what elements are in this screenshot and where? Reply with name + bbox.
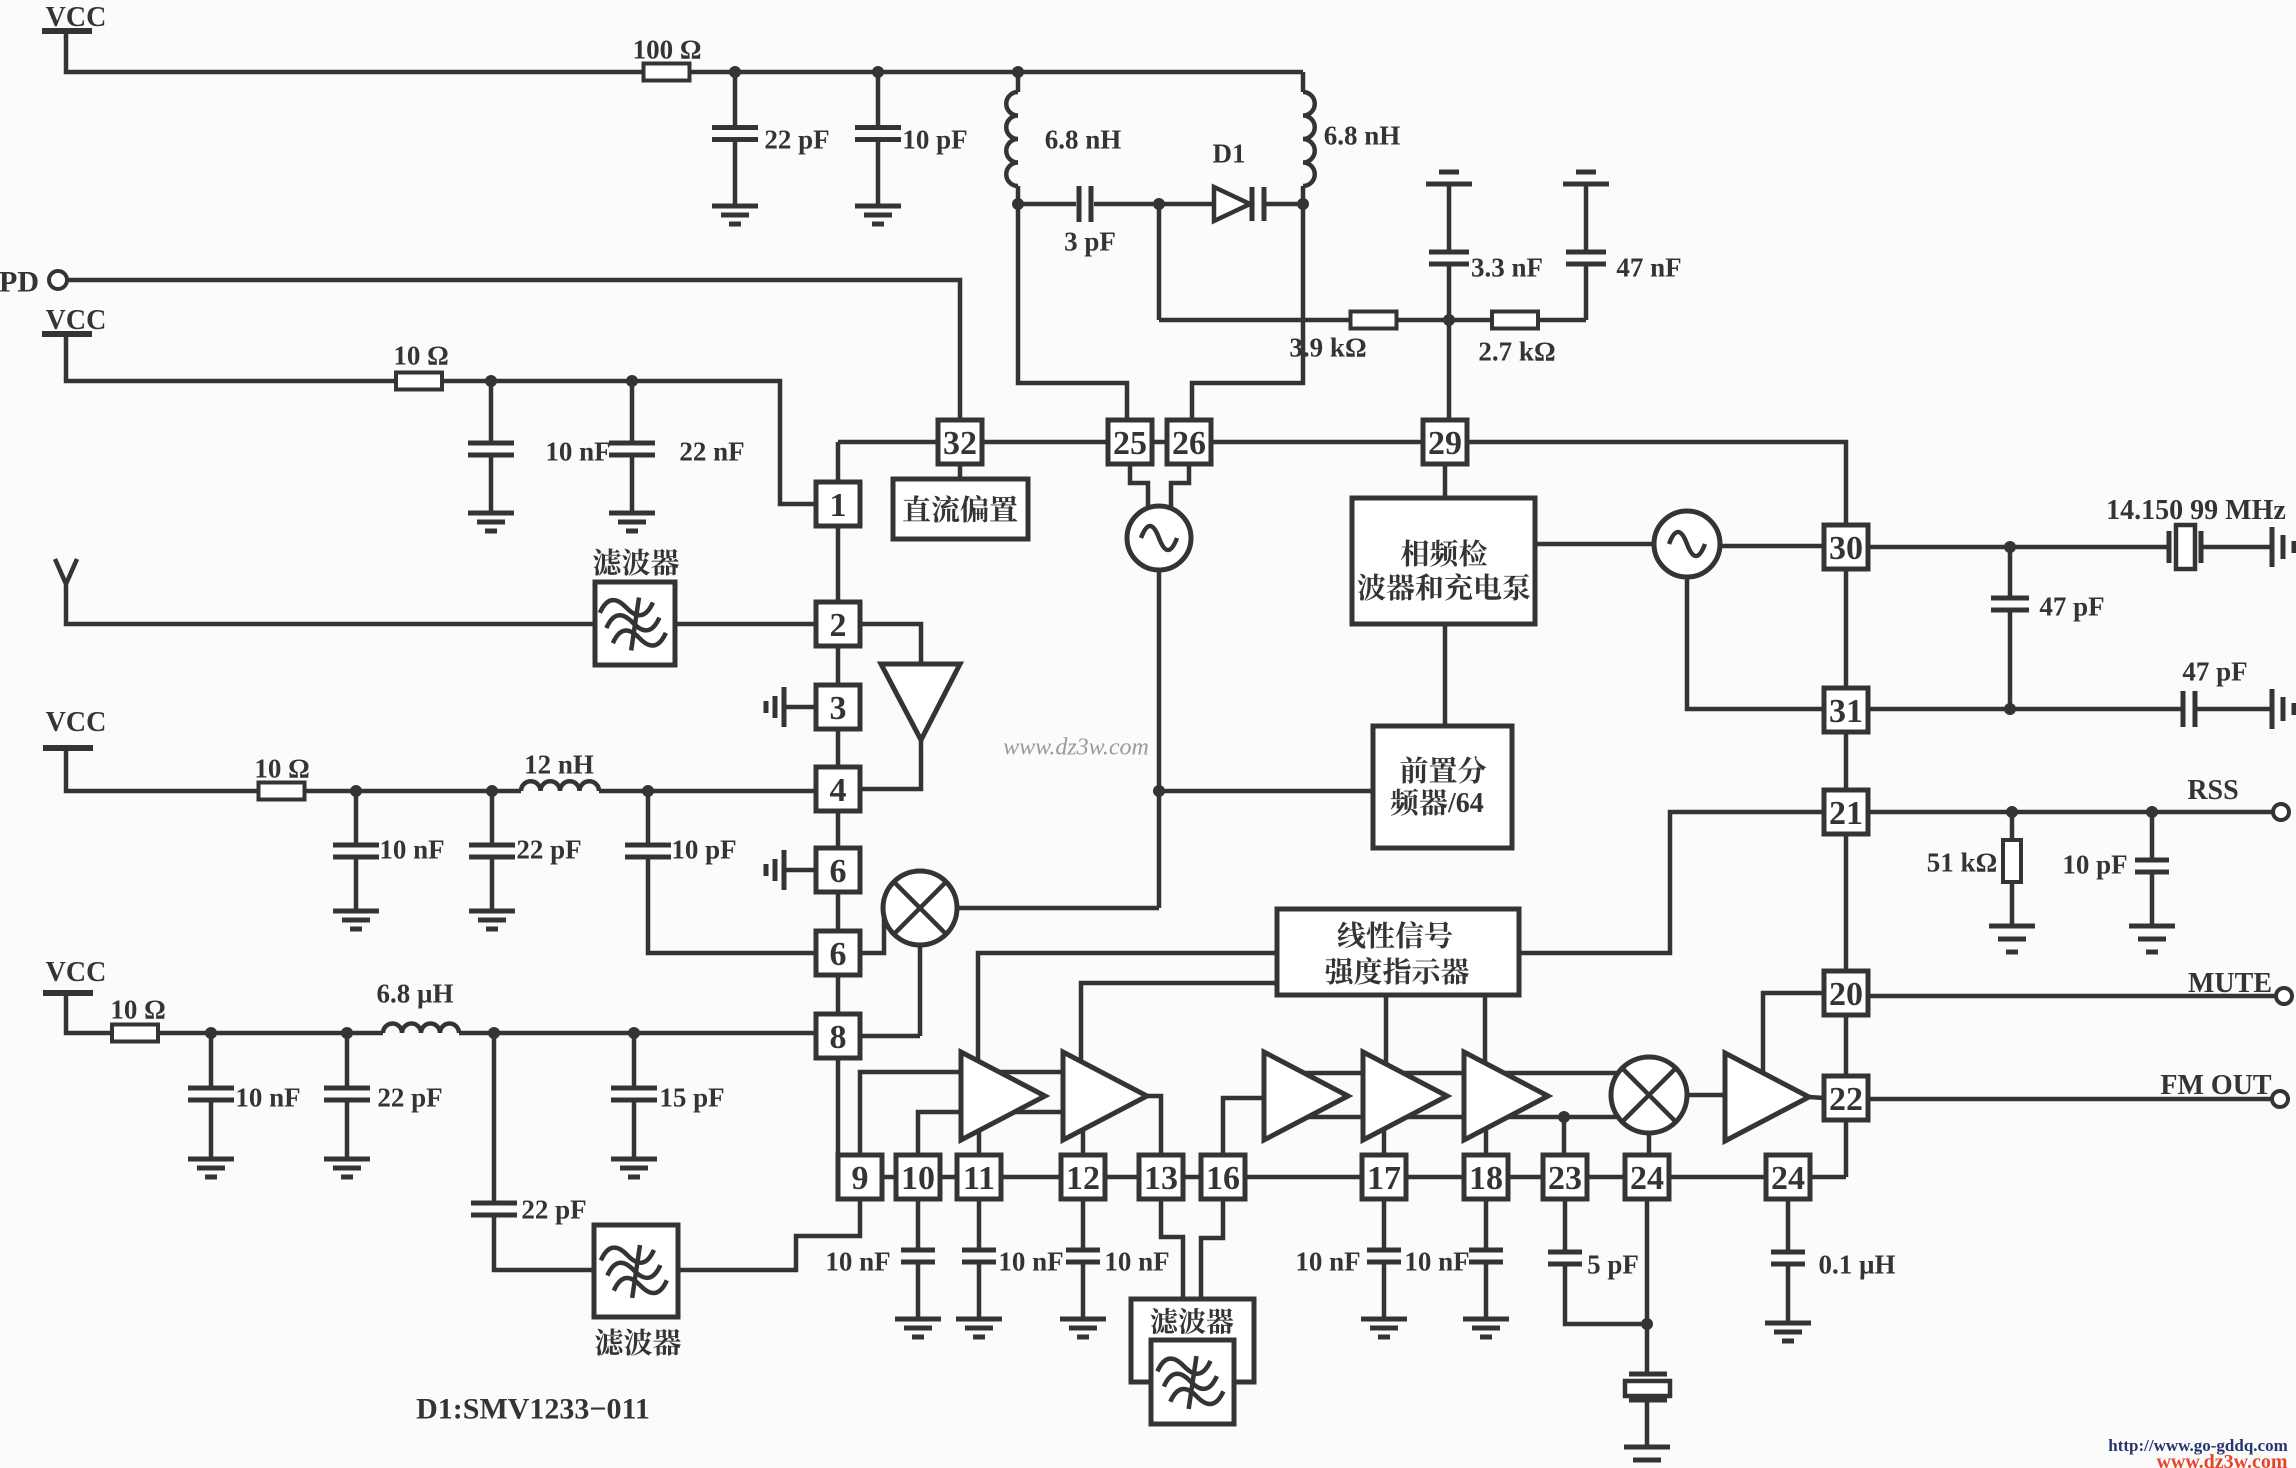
svg-text:30: 30 [1829, 530, 1863, 567]
svg-text:RSS: RSS [2187, 775, 2238, 806]
svg-text:22: 22 [1829, 1081, 1863, 1118]
svg-text:26: 26 [1172, 425, 1206, 462]
svg-text:VCC: VCC [46, 707, 107, 738]
svg-text:32: 32 [943, 425, 977, 462]
svg-text:MUTE: MUTE [2188, 968, 2272, 999]
svg-text:1: 1 [830, 487, 847, 524]
svg-text:3.3 nF: 3.3 nF [1471, 252, 1543, 282]
svg-text:10 nF: 10 nF [825, 1246, 890, 1276]
svg-text:VCC: VCC [46, 957, 107, 988]
svg-text:6: 6 [830, 936, 847, 973]
svg-text:25: 25 [1113, 425, 1147, 462]
svg-text:10: 10 [901, 1160, 935, 1197]
svg-text:12: 12 [1066, 1160, 1100, 1197]
svg-text:/64: /64 [1447, 788, 1484, 819]
svg-text:6.8 µH: 6.8 µH [376, 978, 453, 1008]
svg-text:29: 29 [1428, 425, 1462, 462]
svg-text:10 Ω: 10 Ω [393, 340, 448, 370]
svg-text:PD: PD [0, 266, 39, 299]
svg-text:16: 16 [1206, 1160, 1240, 1197]
svg-text:22 pF: 22 pF [764, 124, 829, 154]
svg-text:10 nF: 10 nF [1295, 1246, 1360, 1276]
svg-text:47 pF: 47 pF [2182, 656, 2247, 686]
svg-text:9: 9 [852, 1160, 869, 1197]
svg-text:22 nF: 22 nF [679, 436, 744, 466]
svg-text:5 pF: 5 pF [1587, 1249, 1639, 1279]
svg-text:10 nF: 10 nF [1104, 1246, 1169, 1276]
svg-text:51 kΩ: 51 kΩ [1927, 847, 1997, 877]
svg-text:D1:SMV1233−011: D1:SMV1233−011 [416, 1393, 650, 1426]
svg-text:10 nF: 10 nF [235, 1082, 300, 1112]
svg-text:15 pF: 15 pF [659, 1082, 724, 1112]
svg-text:47 pF: 47 pF [2039, 591, 2104, 621]
svg-text:10 nF: 10 nF [1404, 1246, 1469, 1276]
svg-text:8: 8 [830, 1019, 847, 1056]
svg-text:17: 17 [1367, 1160, 1401, 1197]
svg-text:13: 13 [1144, 1160, 1178, 1197]
svg-text:3.9 kΩ: 3.9 kΩ [1289, 332, 1366, 362]
svg-text:31: 31 [1829, 693, 1863, 730]
svg-text:10 pF: 10 pF [902, 124, 967, 154]
svg-text:12 nH: 12 nH [524, 749, 594, 779]
svg-text:10 nF: 10 nF [545, 436, 610, 466]
svg-text:24: 24 [1771, 1160, 1805, 1197]
svg-text:FM OUT: FM OUT [2160, 1070, 2272, 1101]
svg-text:3: 3 [830, 690, 847, 727]
svg-text:6: 6 [830, 853, 847, 890]
svg-text:10 nF: 10 nF [998, 1246, 1063, 1276]
svg-text:VCC: VCC [46, 2, 107, 33]
svg-text:10 Ω: 10 Ω [110, 994, 165, 1024]
svg-text:VCC: VCC [46, 305, 107, 336]
svg-text:11: 11 [963, 1160, 995, 1197]
svg-text:D1: D1 [1213, 138, 1246, 168]
svg-text:100 Ω: 100 Ω [633, 34, 702, 64]
svg-text:22 pF: 22 pF [377, 1082, 442, 1112]
svg-text:4: 4 [830, 772, 847, 809]
svg-text:10 pF: 10 pF [671, 834, 736, 864]
svg-text:www.dz3w.com: www.dz3w.com [2156, 1451, 2287, 1468]
svg-text:14.150 99 MHz: 14.150 99 MHz [2106, 495, 2286, 526]
svg-text:www.dz3w.com: www.dz3w.com [1003, 734, 1149, 760]
svg-text:22 pF: 22 pF [521, 1194, 586, 1224]
svg-text:6.8 nH: 6.8 nH [1045, 124, 1122, 154]
svg-text:10 pF: 10 pF [2062, 849, 2127, 879]
svg-text:21: 21 [1829, 795, 1863, 832]
svg-text:20: 20 [1829, 976, 1863, 1013]
svg-text:2: 2 [830, 607, 847, 644]
svg-text:24: 24 [1630, 1160, 1664, 1197]
svg-text:0.1 µH: 0.1 µH [1818, 1249, 1895, 1279]
svg-text:3 pF: 3 pF [1064, 226, 1116, 256]
svg-text:10 Ω: 10 Ω [254, 753, 309, 783]
svg-text:6.8 nH: 6.8 nH [1324, 120, 1401, 150]
svg-text:23: 23 [1548, 1160, 1582, 1197]
svg-text:18: 18 [1469, 1160, 1503, 1197]
svg-text:10 nF: 10 nF [379, 834, 444, 864]
svg-text:47 nF: 47 nF [1616, 252, 1681, 282]
svg-text:22 pF: 22 pF [516, 834, 581, 864]
svg-text:2.7 kΩ: 2.7 kΩ [1478, 336, 1555, 366]
